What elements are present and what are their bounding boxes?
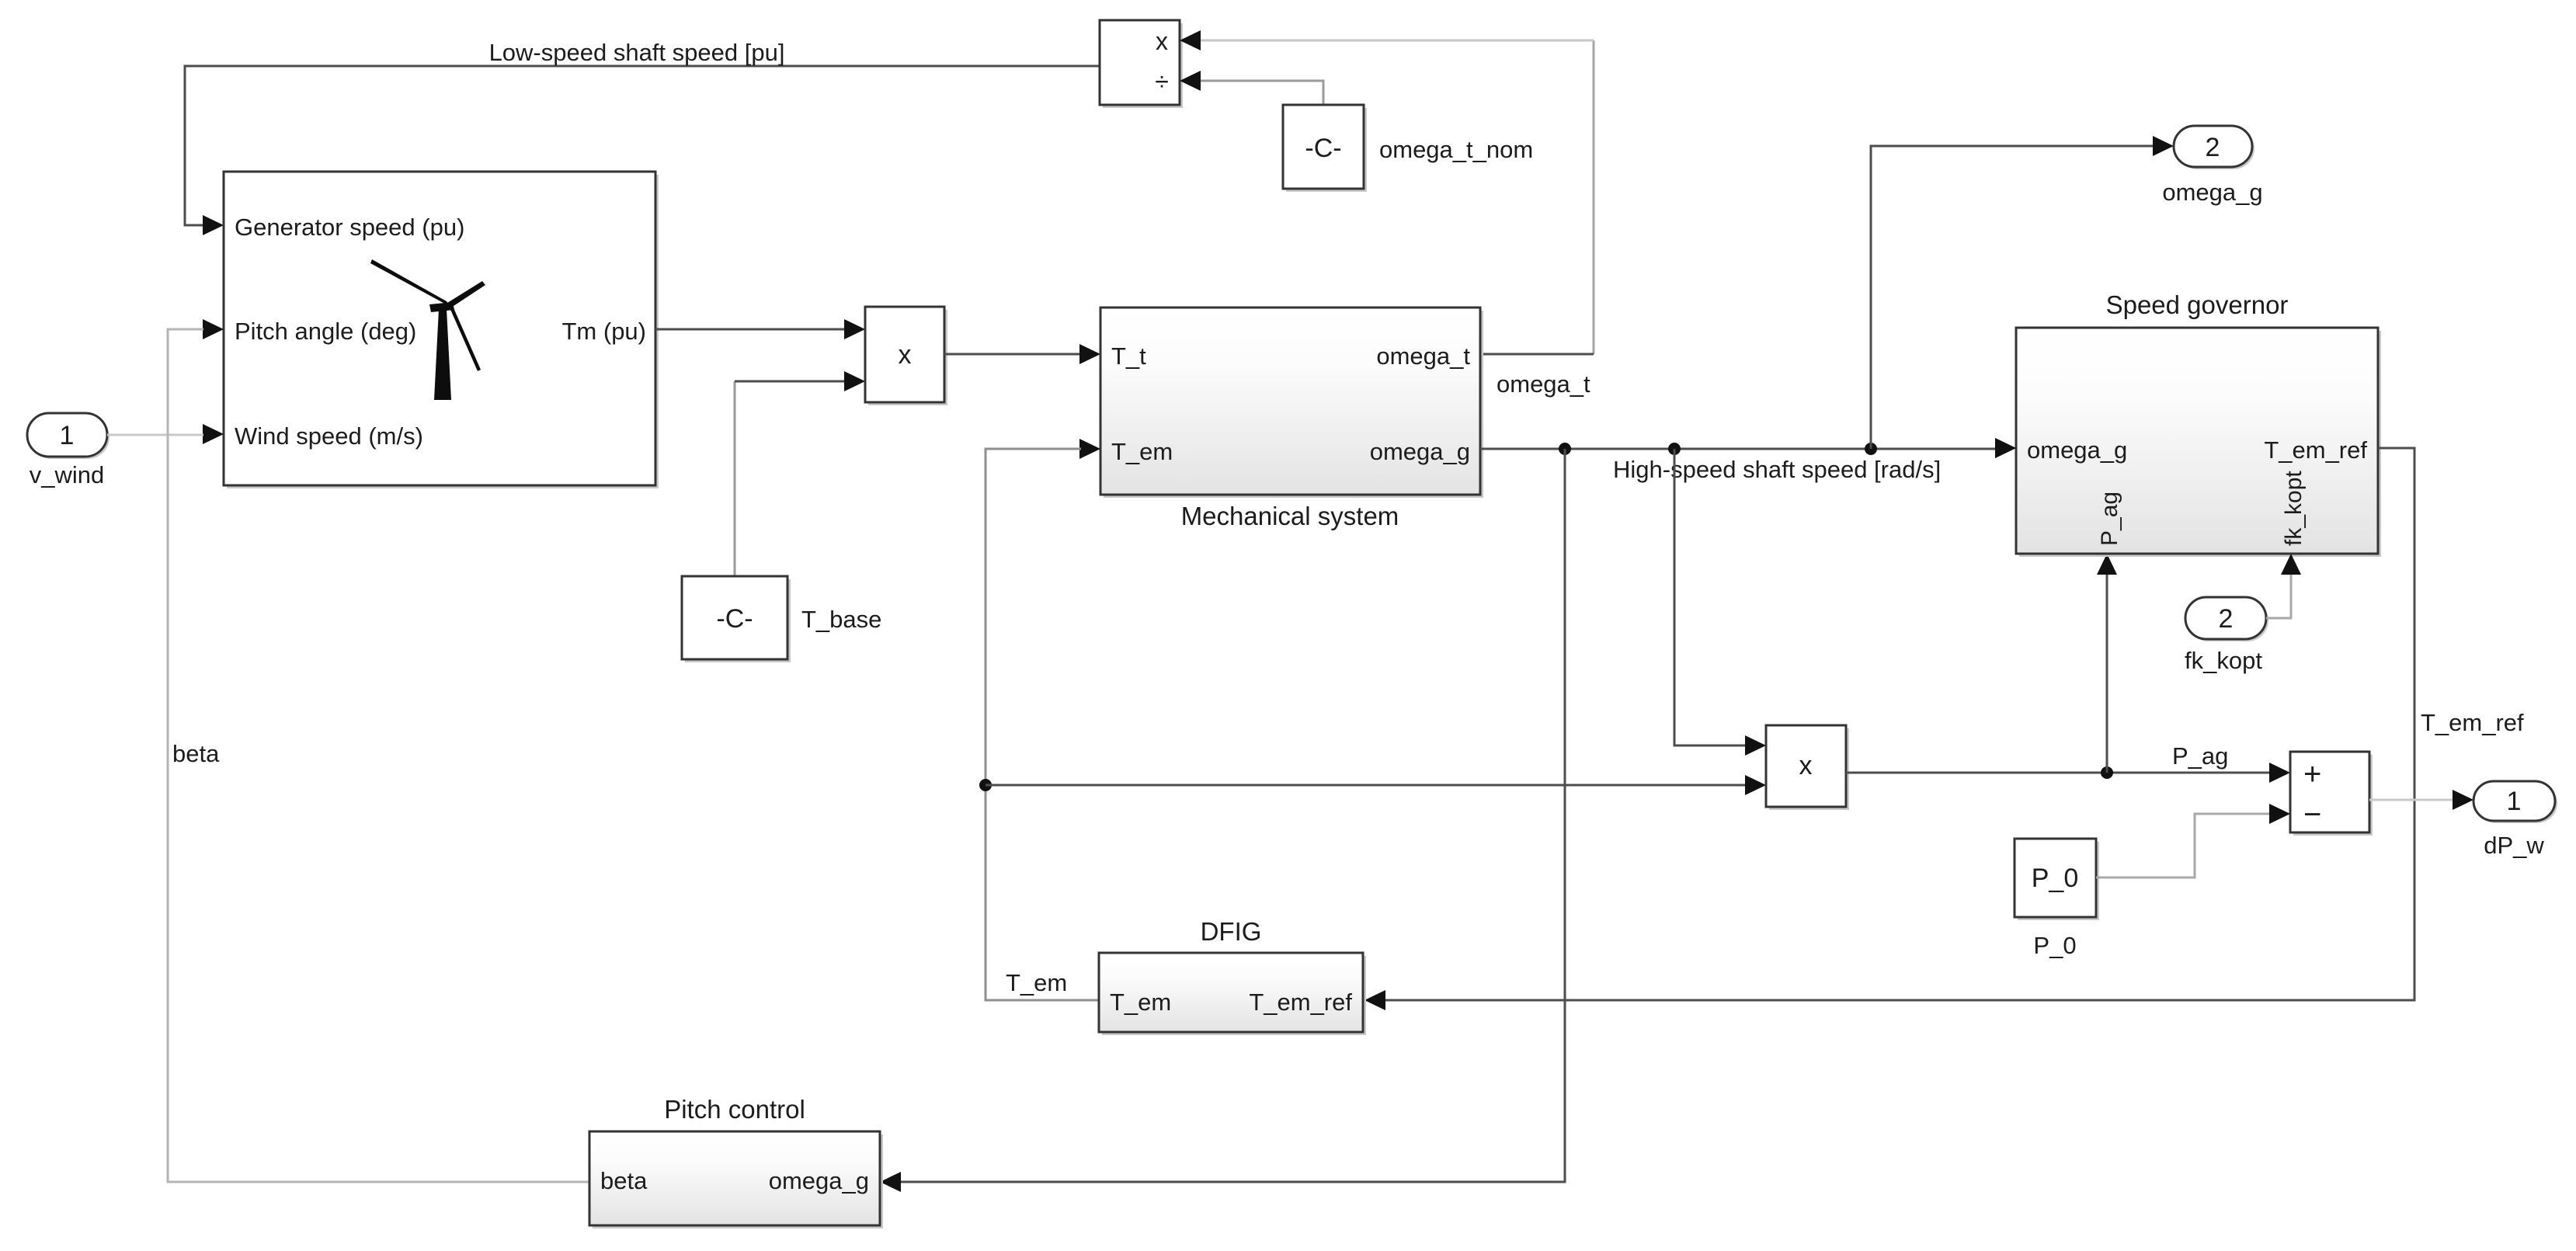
wire: omega_g down to Pitch control: [880, 449, 1565, 1192]
wire: low-speed shaft speed feedback (x-block output to Generator speed input): [185, 66, 1100, 235]
svg-text:beta: beta: [172, 740, 220, 767]
svg-text:Wind speed (m/s): Wind speed (m/s): [235, 422, 423, 450]
block: DFIG: [1099, 953, 1366, 1035]
svg-text:omega_t: omega_t: [1376, 342, 1470, 370]
wire: P_ag up into Speed governor: [2097, 554, 2117, 773]
block: product x (power): [1766, 725, 1849, 810]
block: product/divide (x ÷, mirrored): [1100, 20, 1201, 108]
svg-text:1: 1: [60, 421, 75, 450]
svg-text:T_t: T_t: [1111, 342, 1146, 370]
svg-text:Generator speed (pu): Generator speed (pu): [235, 214, 464, 241]
svg-text:2: 2: [2206, 133, 2220, 162]
port: output 1 dP_w: [2473, 781, 2557, 823]
svg-text:T_em_ref: T_em_ref: [1249, 989, 1352, 1016]
svg-text:DFIG: DFIG: [1201, 917, 1262, 946]
block: sum (+ -): [2290, 752, 2373, 836]
svg-text:v_wind: v_wind: [30, 461, 105, 488]
port: input 1 v_wind: [27, 413, 110, 459]
junction: T_em branch: [979, 779, 992, 791]
junction: omega_g branch down to product: [1668, 443, 1681, 455]
svg-text:Mechanical system: Mechanical system: [1181, 502, 1399, 530]
wire: omega_g main line to Speed governor: [1480, 438, 2016, 458]
svg-text:Pitch control: Pitch control: [664, 1095, 805, 1124]
svg-text:T_em_ref: T_em_ref: [2421, 709, 2524, 736]
svg-text:Pitch angle (deg): Pitch angle (deg): [235, 318, 416, 345]
junction: P_ag branch: [2101, 766, 2113, 779]
port: input 2 fk_kopt: [2185, 597, 2268, 641]
svg-text:÷: ÷: [1155, 68, 1169, 96]
wire: T_base to product second input: [735, 371, 865, 391]
svg-text:fk_kopt: fk_kopt: [2281, 471, 2307, 546]
wire: fk_kopt into Speed governor: [2266, 554, 2301, 618]
junction: omega_g branch up to outport: [1865, 443, 1877, 455]
block: Mechanical system: [1079, 308, 1483, 498]
svg-text:2: 2: [2219, 604, 2234, 634]
block: Pitch control: [589, 1131, 883, 1228]
wire: omega_t feedback into x input: [1201, 40, 1594, 354]
wire: P_0 to sum minus input: [2096, 804, 2290, 877]
svg-text:dP_w: dP_w: [2484, 832, 2544, 859]
svg-text:+: +: [2303, 757, 2321, 791]
wire: omega_t from Mechanical system to corner: [1480, 353, 1594, 356]
wire: omega_g up to output port 2: [1871, 136, 2174, 449]
svg-text:fk_kopt: fk_kopt: [2185, 647, 2262, 674]
svg-text:T_em: T_em: [1111, 438, 1173, 465]
svg-text:omega_t: omega_t: [1497, 370, 1590, 398]
svg-text:T_em: T_em: [1006, 969, 1067, 996]
svg-text:High-speed shaft speed [rad/s]: High-speed shaft speed [rad/s]: [1613, 456, 1941, 483]
wire: beta feedback (Pitch control to Pitch angle input): [168, 329, 589, 1182]
block: constant -C- omega_t_nom: [1201, 81, 1367, 192]
wire: sum output to dP_w: [2369, 790, 2473, 810]
port: output 2 omega_g: [2174, 126, 2254, 169]
svg-text:omega_t_nom: omega_t_nom: [1379, 136, 1533, 163]
svg-text:-C-: -C-: [1305, 134, 1341, 163]
svg-text:Tm (pu): Tm (pu): [562, 318, 647, 345]
wire: T_em branch to power product: [986, 775, 1766, 795]
wire: v_wind to Wind speed input: [107, 434, 203, 436]
block: Wind Turbine: [203, 172, 659, 488]
svg-text:beta: beta: [600, 1167, 648, 1194]
svg-text:omega_g: omega_g: [1370, 438, 1470, 465]
junction: omega_g branch down to pitch: [1559, 443, 1571, 455]
svg-text:P_0: P_0: [2033, 932, 2076, 959]
svg-text:P_ag: P_ag: [2097, 492, 2122, 546]
icon: wind turbine: [370, 259, 485, 400]
svg-text:1: 1: [2507, 787, 2522, 816]
svg-text:Speed governor: Speed governor: [2106, 290, 2289, 319]
block: product x (torque): [865, 307, 947, 405]
svg-text:x: x: [1156, 27, 1168, 55]
wire: P_ag from product to sum: [1846, 763, 2290, 783]
wire: Tm to product: [655, 319, 865, 339]
svg-text:P_0: P_0: [2032, 864, 2079, 893]
svg-text:omega_g: omega_g: [2162, 179, 2262, 206]
wire: T_em path from DFIG up to Mechanical system: [986, 449, 1099, 1000]
svg-text:x: x: [899, 340, 912, 370]
svg-text:x: x: [1799, 751, 1813, 780]
svg-text:−: −: [2303, 798, 2321, 832]
svg-text:Low-speed shaft speed [pu]: Low-speed shaft speed [pu]: [489, 39, 785, 66]
block: Speed governor: [1995, 328, 2381, 557]
block: P_0: [2015, 839, 2099, 920]
svg-text:P_ag: P_ag: [2172, 742, 2228, 770]
svg-text:-C-: -C-: [716, 604, 753, 634]
svg-text:omega_g: omega_g: [2027, 436, 2127, 464]
wire: T_em_ref from governor down to DFIG: [1364, 448, 2414, 1010]
svg-text:T_em_ref: T_em_ref: [2264, 436, 2367, 464]
svg-text:omega_g: omega_g: [769, 1167, 869, 1194]
svg-text:T_em: T_em: [1110, 989, 1171, 1016]
wire: product to T_t: [944, 344, 1100, 364]
wire: omega_g down to power product first input: [1674, 449, 1766, 756]
block: constant -C- T_base: [682, 381, 791, 662]
svg-text:T_base: T_base: [801, 606, 881, 633]
